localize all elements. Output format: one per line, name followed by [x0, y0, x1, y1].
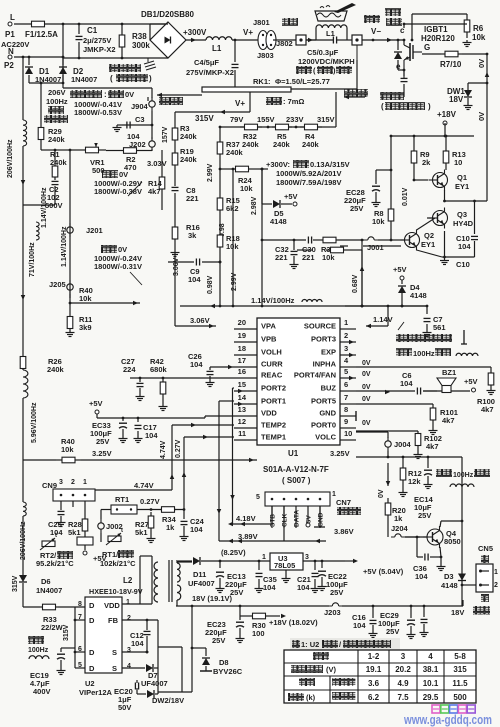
svg-text:D3: D3 — [444, 572, 454, 581]
sampling drop1 — [261, 168, 264, 196]
bus under IC — [81, 458, 257, 463]
node V+ down — [175, 92, 250, 114]
svg-text:1: 1 — [494, 569, 498, 576]
svg-text:10: 10 — [454, 158, 462, 167]
svg-text:C3: C3 — [135, 115, 145, 124]
svg-text:DW2/18V: DW2/18V — [152, 696, 184, 705]
svg-text:1.14V/100Hz: 1.14V/100Hz — [61, 226, 68, 267]
thermistor RT1 sensor — [100, 528, 136, 568]
svg-text:20: 20 — [238, 318, 246, 327]
label 3.06V left — [175, 252, 216, 328]
wire U2 pin1 — [122, 603, 152, 605]
diode D3 — [441, 572, 466, 606]
svg-text:2: 2 — [494, 582, 498, 589]
label 0.01V — [402, 187, 409, 206]
svg-text:240k: 240k — [180, 155, 198, 164]
filter100 draw — [436, 469, 474, 479]
wire q2 collector — [417, 218, 436, 230]
svg-text:1: 1 — [344, 318, 348, 327]
L2 part label — [89, 587, 143, 596]
svg-text:3.03V: 3.03V — [147, 159, 167, 168]
svg-text:315V: 315V — [63, 624, 70, 641]
terminal P2 — [4, 47, 14, 70]
resistor R32 — [240, 124, 262, 149]
capacitor C4 — [186, 40, 239, 88]
buzzer BZ1 — [423, 368, 470, 393]
sensor RT2 body — [77, 534, 107, 563]
svg-text:R7/10: R7/10 — [440, 60, 462, 69]
bridge rectifier DB1 — [141, 10, 194, 58]
resistor R42 — [150, 357, 168, 411]
r6 connect — [403, 23, 467, 28]
wire 315V feed — [330, 126, 336, 128]
svg-text:D: D — [89, 648, 95, 657]
jumper J204 — [391, 524, 409, 533]
svg-text:224: 224 — [123, 365, 136, 374]
svg-text:CURR: CURR — [261, 360, 283, 369]
svg-text:0.98V: 0.98V — [207, 275, 214, 294]
q2 conn — [363, 245, 401, 247]
wire TEMP1 — [182, 435, 234, 509]
U3 78L05 — [220, 553, 345, 583]
svg-text:5.96V/100Hz: 5.96V/100Hz — [31, 402, 38, 443]
svg-text:240k: 240k — [47, 365, 65, 374]
cap EC23 — [205, 616, 245, 645]
divider rail — [172, 112, 197, 146]
emitter cap — [401, 70, 408, 97]
label 0.68V — [352, 274, 359, 293]
heating pan — [315, 3, 356, 21]
svg-text:1k: 1k — [394, 514, 403, 523]
transformer windings — [140, 556, 192, 606]
label 0.98 vert — [219, 223, 226, 237]
svg-text:D11: D11 — [193, 570, 206, 579]
svg-text:3.6: 3.6 — [368, 679, 380, 688]
svg-text:): ) — [149, 74, 152, 83]
capacitor C10a — [445, 201, 479, 257]
svg-text:1: 1 — [83, 479, 87, 486]
svg-text:561: 561 — [433, 323, 446, 332]
damper diode — [394, 39, 405, 72]
svg-text:6: 6 — [344, 380, 348, 389]
svg-text:PORT4/FAN: PORT4/FAN — [294, 371, 336, 380]
wire r19 down — [174, 172, 176, 186]
capacitor C30 — [302, 237, 321, 263]
svg-text:GND: GND — [318, 512, 325, 527]
svg-text:7: 7 — [344, 393, 348, 402]
label 1.14V/100Hz v1 — [36, 187, 48, 240]
svg-text:U2: U2 — [85, 679, 95, 688]
diode D5 +5V — [262, 192, 298, 226]
jumper J904 — [131, 97, 155, 111]
label +300V — [183, 28, 207, 42]
svg-text:3.89V: 3.89V — [238, 532, 258, 541]
svg-text:4k7: 4k7 — [148, 187, 161, 196]
svg-text:2k: 2k — [422, 158, 431, 167]
svg-text:25V: 25V — [330, 588, 343, 597]
svg-text:104: 104 — [190, 360, 203, 369]
resistor R34 — [160, 507, 177, 532]
svg-text:18V: 18V — [451, 608, 464, 617]
svg-text:TEMP2: TEMP2 — [261, 421, 286, 430]
svg-text:4.18V: 4.18V — [236, 514, 256, 523]
wire left to R40 — [23, 459, 56, 461]
svg-text:R38: R38 — [132, 32, 147, 41]
label 0V right2 — [477, 112, 486, 121]
svg-text:3k: 3k — [188, 231, 197, 240]
wire y240 row — [262, 239, 306, 242]
svg-text:10: 10 — [344, 429, 352, 438]
label 3.03V — [147, 159, 167, 168]
left rail with ripple — [22, 56, 27, 355]
svg-text:155V: 155V — [257, 115, 275, 124]
cap C35 — [255, 560, 277, 593]
svg-text:240k: 240k — [226, 148, 244, 157]
svg-text:3k9: 3k9 — [79, 323, 92, 332]
jumper J002 — [98, 510, 123, 543]
svg-text:104: 104 — [415, 572, 428, 581]
wire 0.68 rail — [360, 240, 365, 306]
svg-text:3.86V: 3.86V — [334, 527, 354, 536]
svg-text:D: D — [89, 601, 95, 610]
svg-text:STB: STB — [270, 514, 277, 527]
connector CN5 — [476, 544, 498, 602]
svg-text:206V/100Hz: 206V/100Hz — [7, 139, 14, 178]
svg-text:38.1: 38.1 — [423, 665, 439, 674]
svg-text:1200VDC/MKPH: 1200VDC/MKPH — [298, 57, 355, 66]
svg-text:2: 2 — [127, 615, 131, 622]
node x262 rail — [261, 168, 264, 306]
svg-text:6.2: 6.2 — [368, 693, 380, 702]
svg-text:VIPer12A: VIPer12A — [79, 688, 113, 697]
svg-text:0.27V: 0.27V — [175, 439, 182, 458]
R20 draw — [385, 498, 406, 523]
diode D2 — [59, 57, 97, 84]
svg-text:29.5: 29.5 — [423, 693, 439, 702]
svg-text:7.5: 7.5 — [397, 693, 409, 702]
svg-text:6k2: 6k2 — [226, 204, 239, 213]
svg-text:10k: 10k — [79, 294, 92, 303]
wire D7 up — [157, 640, 159, 668]
svg-text:206V: 206V — [48, 88, 66, 97]
svg-text:www.ga-gddq.com: www.ga-gddq.com — [403, 713, 492, 727]
connector CN7 — [256, 491, 336, 528]
label RK1 — [253, 77, 330, 86]
label 3.86V — [334, 527, 354, 536]
svg-text:INPHA: INPHA — [313, 360, 337, 369]
fuse F1 12.5A — [14, 21, 62, 39]
svg-text:240k: 240k — [302, 140, 320, 149]
jumper J202 — [129, 137, 155, 151]
resistor R33 — [23, 604, 85, 632]
svg-text:25V: 25V — [350, 204, 363, 213]
wire q2 emitter — [417, 250, 445, 257]
label 3.25V left — [92, 449, 112, 458]
svg-text:0V: 0V — [362, 396, 371, 403]
label 79V — [230, 115, 243, 124]
wire TEMP2 — [170, 423, 234, 490]
c32 wires — [297, 249, 312, 251]
svg-text:18V: 18V — [449, 95, 464, 104]
label LC tank — [296, 66, 352, 75]
wire q1 base — [413, 179, 428, 182]
label 315V row — [317, 115, 335, 124]
wire 18V down branch — [191, 605, 194, 692]
svg-text:240k: 240k — [273, 140, 291, 149]
label 0.98V vert — [207, 258, 221, 306]
c30 r31 — [326, 247, 348, 253]
wire J205 down — [69, 294, 72, 315]
label C5 resonant — [298, 37, 355, 67]
svg-text:J004: J004 — [394, 440, 412, 449]
label IGBT ground — [380, 92, 431, 111]
connector CN9 — [42, 479, 95, 516]
capacitor C2 — [23, 178, 63, 210]
thermistor RT2 — [36, 533, 74, 568]
current transformer primary — [296, 35, 316, 45]
label current-detect voltages — [70, 90, 134, 117]
svg-text:+300V:: +300V: — [266, 160, 290, 169]
svg-text:VPA: VPA — [261, 322, 276, 331]
diode D4 +5V — [393, 265, 427, 306]
svg-text::: : — [104, 90, 107, 99]
label J203 — [324, 608, 341, 617]
label 3.06V vert — [173, 257, 180, 276]
svg-text:Q3: Q3 — [457, 210, 467, 219]
svg-text:680k: 680k — [150, 365, 168, 374]
svg-text:0.01V: 0.01V — [402, 187, 409, 206]
svg-text:1.14V/100Hz: 1.14V/100Hz — [251, 296, 295, 305]
wire U2 pin2 FB — [122, 619, 158, 640]
ground bridge — [109, 58, 156, 83]
svg-text:J205: J205 — [49, 280, 66, 289]
svg-text:(V): (V) — [326, 665, 337, 674]
svg-text:1800W/7.59A/198V: 1800W/7.59A/198V — [276, 178, 341, 187]
svg-text:25V: 25V — [96, 437, 109, 446]
wire R1 body — [54, 150, 56, 165]
cap C19b — [420, 606, 429, 637]
resistor R1 — [41, 142, 68, 178]
capacitor C3 — [113, 111, 154, 141]
resistor R6 link — [411, 14, 467, 41]
svg-text:5k1: 5k1 — [68, 528, 81, 537]
label AC220V — [1, 40, 29, 49]
svg-text:2.98V: 2.98V — [251, 196, 258, 215]
IGBT1 labels — [396, 25, 455, 71]
svg-text:3: 3 — [305, 554, 309, 561]
svg-text:PORT2: PORT2 — [261, 384, 286, 393]
C6 fin — [356, 388, 437, 395]
svg-text:95.2k/21°C: 95.2k/21°C — [36, 559, 74, 568]
left ripple2 — [23, 370, 28, 460]
terminal P1 — [5, 13, 15, 39]
svg-text:5k1: 5k1 — [135, 528, 148, 537]
resistor R11 — [66, 315, 93, 337]
svg-text:104: 104 — [188, 275, 201, 284]
capacitor C25 — [48, 511, 66, 537]
wire J004 up — [356, 432, 388, 457]
wire 362 to bus — [361, 305, 364, 308]
svg-text:SOURCE: SOURCE — [304, 322, 336, 331]
EC22 real — [318, 561, 349, 597]
resistor R9 — [411, 136, 431, 180]
resistor R100 — [356, 367, 496, 414]
transistor IGBT1 — [404, 40, 422, 78]
svg-text:J204: J204 — [391, 524, 409, 533]
svg-text:275V/MKP-X2: 275V/MKP-X2 — [186, 68, 234, 77]
arrow left rail — [21, 180, 26, 300]
svg-text:0V: 0V — [362, 384, 371, 391]
label 5.96V/100Hz — [31, 402, 38, 443]
svg-text:PORT5: PORT5 — [311, 397, 336, 406]
diode D11 — [176, 557, 220, 588]
resistor R29 — [38, 82, 65, 144]
svg-text:78L05: 78L05 — [274, 561, 295, 570]
inductor L1 choke — [206, 37, 260, 53]
svg-text:3.25V: 3.25V — [330, 449, 350, 458]
svg-text:1-2: 1-2 — [368, 652, 380, 661]
svg-text:+18V (18.02V): +18V (18.02V) — [269, 618, 318, 627]
svg-text:C1: C1 — [87, 26, 98, 35]
svg-text:1k: 1k — [166, 523, 175, 532]
svg-text:3: 3 — [127, 647, 131, 654]
svg-text:315V: 315V — [195, 114, 214, 123]
r31 right — [348, 250, 362, 306]
svg-text:0.27V: 0.27V — [140, 497, 160, 506]
svg-text:G: G — [424, 43, 430, 52]
svg-text:F1/12.5A: F1/12.5A — [25, 30, 58, 39]
svg-text:221: 221 — [302, 253, 315, 262]
svg-text:PORT3: PORT3 — [311, 335, 336, 344]
wire Q4 base — [405, 536, 427, 539]
shunt bar RK1 — [202, 87, 291, 92]
svg-text:Φ=1.50/L=25.77: Φ=1.50/L=25.77 — [275, 77, 330, 86]
label 315V vert b — [12, 575, 19, 592]
svg-text:FB: FB — [108, 616, 119, 625]
heating coil L1 — [316, 25, 347, 40]
wire J202 up — [147, 97, 149, 101]
resistor R6 — [463, 14, 486, 47]
svg-text:0V: 0V — [378, 489, 385, 498]
label ground current right — [344, 89, 368, 99]
svg-text:100Hz: 100Hz — [28, 647, 49, 654]
svg-text:RK1:: RK1: — [253, 77, 271, 86]
label heating plate — [385, 8, 402, 26]
svg-text:100Hz: 100Hz — [413, 349, 435, 358]
svg-text:): ) — [428, 102, 431, 111]
svg-text:3.06V: 3.06V — [173, 257, 180, 276]
watermark url — [403, 713, 492, 727]
J204 real — [388, 520, 420, 537]
wire CN5 link — [461, 584, 476, 587]
label 18V fan — [451, 606, 490, 617]
svg-text:HXEE10-18V-9V: HXEE10-18V-9V — [89, 587, 143, 596]
svg-text:1: 1 — [262, 554, 266, 561]
svg-text:JMKP-X2: JMKP-X2 — [83, 45, 116, 54]
svg-text:N: N — [8, 47, 14, 56]
svg-text:15: 15 — [238, 380, 246, 389]
wire q3 out — [443, 190, 487, 202]
svg-text:10k: 10k — [322, 253, 335, 262]
label +18V right — [437, 110, 457, 130]
label 206V 100Hz ripple — [44, 88, 68, 123]
resistor R5 — [272, 124, 292, 149]
svg-text:13: 13 — [238, 405, 246, 414]
svg-text:300k: 300k — [132, 41, 150, 50]
svg-text:P2: P2 — [4, 61, 14, 70]
U2 VIPer12A — [78, 597, 131, 673]
resistor R38 — [119, 24, 150, 58]
label 233V — [286, 115, 304, 124]
svg-text:( S007 ): ( S007 ) — [282, 476, 311, 485]
wire457 draw — [356, 456, 463, 523]
svg-text:0.68V: 0.68V — [352, 274, 359, 293]
svg-text:5: 5 — [344, 367, 348, 376]
cap EC29 — [378, 606, 416, 639]
svg-text:D: D — [89, 616, 95, 625]
label +300V currents — [266, 160, 350, 187]
EC19 labels — [30, 671, 51, 696]
svg-text:4: 4 — [127, 663, 131, 670]
wire U2 pin3 — [122, 648, 148, 653]
+5V EC33 C17 — [89, 399, 158, 446]
label spike filter — [396, 322, 467, 344]
wire to coil — [273, 39, 296, 41]
svg-text:102k/21°C: 102k/21°C — [100, 559, 136, 568]
resistor R2 — [106, 148, 152, 172]
svg-text:0V: 0V — [118, 245, 127, 254]
svg-text:AC220V: AC220V — [1, 40, 29, 49]
svg-text:BUZ: BUZ — [321, 384, 337, 393]
svg-text:1N4007: 1N4007 — [71, 75, 97, 84]
svg-text:19.1: 19.1 — [366, 665, 382, 674]
label 157V vert — [162, 126, 169, 143]
svg-text:4k7: 4k7 — [426, 442, 439, 451]
label 1.14V/100Hz v2 — [61, 226, 68, 267]
svg-text:+5V: +5V — [464, 377, 478, 386]
driver top rail — [390, 135, 474, 138]
svg-text:104: 104 — [458, 242, 471, 251]
capacitor C32 — [275, 240, 299, 269]
svg-text:+5V: +5V — [89, 399, 103, 408]
svg-text:0V: 0V — [125, 90, 134, 99]
svg-text:10k: 10k — [472, 33, 486, 42]
svg-text:EY1: EY1 — [421, 240, 435, 249]
wire vr1 node — [55, 149, 103, 276]
shunt right wire — [291, 60, 357, 89]
svg-text:79V: 79V — [230, 115, 243, 124]
resistor R27 — [135, 508, 185, 542]
label standby J205 — [94, 245, 142, 285]
svg-text:1.14V/100Hz: 1.14V/100Hz — [41, 187, 48, 228]
label 2.99V vert2 — [231, 272, 238, 291]
svg-text:25V: 25V — [418, 511, 431, 520]
svg-text:104: 104 — [131, 639, 144, 648]
label 155V — [257, 115, 275, 124]
label waiguan — [364, 15, 381, 36]
svg-text:5: 5 — [256, 494, 260, 501]
svg-text:V+: V+ — [243, 28, 253, 37]
svg-text:157V: 157V — [162, 126, 169, 143]
svg-text:VPB: VPB — [261, 335, 277, 344]
resistor R101 — [356, 404, 458, 435]
wire VDD 5V — [138, 416, 234, 418]
IC U1 S007 — [228, 318, 356, 445]
resistor R4 — [300, 124, 322, 149]
svg-text:11: 11 — [238, 429, 246, 438]
svg-text:25V: 25V — [212, 636, 225, 645]
label standby VR — [94, 170, 142, 196]
